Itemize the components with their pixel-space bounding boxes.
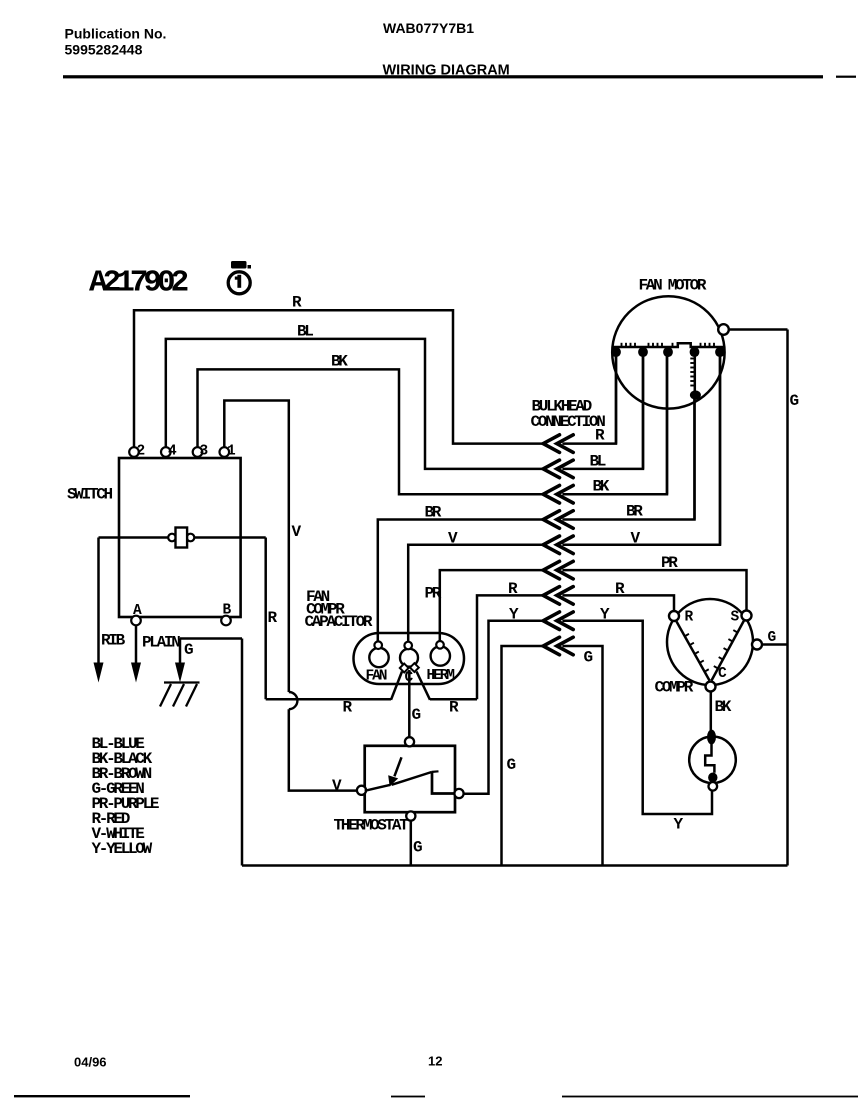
- svg-text:FAN MOTOR: FAN MOTOR: [639, 277, 707, 295]
- svg-text:FAN: FAN: [366, 669, 387, 685]
- svg-text:CAPACITOR: CAPACITOR: [305, 613, 373, 631]
- svg-text:SWITCH: SWITCH: [67, 486, 113, 504]
- svg-text:RIB: RIB: [101, 632, 126, 650]
- svg-text:Publication No.: Publication No.: [65, 25, 167, 41]
- svg-text:CONNECTION: CONNECTION: [531, 413, 606, 431]
- svg-text:WAB077Y7B1: WAB077Y7B1: [383, 20, 474, 36]
- svg-text:12: 12: [428, 1054, 442, 1069]
- svg-text:BL: BL: [297, 323, 313, 341]
- svg-text:04/96: 04/96: [74, 1055, 107, 1070]
- svg-text:5995282448: 5995282448: [65, 42, 143, 58]
- svg-text:THERMOSTAT: THERMOSTAT: [334, 817, 410, 835]
- svg-text:COMPR: COMPR: [655, 679, 694, 697]
- svg-text:Y-YELLOW: Y-YELLOW: [92, 840, 153, 858]
- svg-text:PLAIN: PLAIN: [142, 634, 180, 652]
- svg-text:A217902: A217902: [89, 266, 188, 301]
- svg-text:HERM: HERM: [427, 668, 455, 684]
